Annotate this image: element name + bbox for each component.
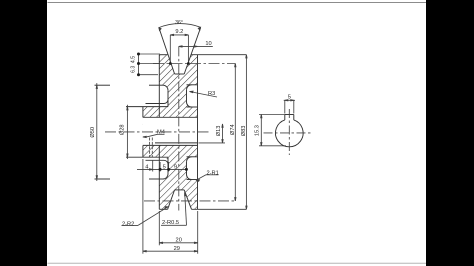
svg-text:Ø50: Ø50 — [90, 127, 96, 138]
svg-text:9.2: 9.2 — [175, 29, 183, 35]
svg-text:5: 5 — [163, 164, 166, 170]
svg-text:R3: R3 — [208, 91, 215, 97]
svg-text:5: 5 — [288, 95, 291, 101]
svg-text:9: 9 — [174, 164, 177, 170]
svg-text:29: 29 — [174, 246, 180, 252]
svg-text:2-R2: 2-R2 — [122, 222, 134, 228]
svg-text:6.3: 6.3 — [131, 66, 137, 73]
svg-text:20: 20 — [176, 238, 182, 244]
svg-text:15.3: 15.3 — [254, 125, 260, 136]
svg-text:36°: 36° — [175, 20, 183, 26]
svg-text:4.5: 4.5 — [131, 56, 137, 63]
svg-text:M4: M4 — [157, 130, 165, 136]
svg-text:4: 4 — [145, 164, 148, 170]
svg-text:Ø83: Ø83 — [241, 126, 247, 137]
svg-text:Ø28: Ø28 — [119, 124, 125, 135]
svg-text:2-R1: 2-R1 — [207, 170, 219, 176]
svg-text:10: 10 — [205, 41, 211, 47]
svg-text:Ø13: Ø13 — [216, 126, 222, 137]
svg-text:2-R0.5: 2-R0.5 — [162, 220, 179, 226]
svg-text:Ø74: Ø74 — [230, 124, 236, 135]
